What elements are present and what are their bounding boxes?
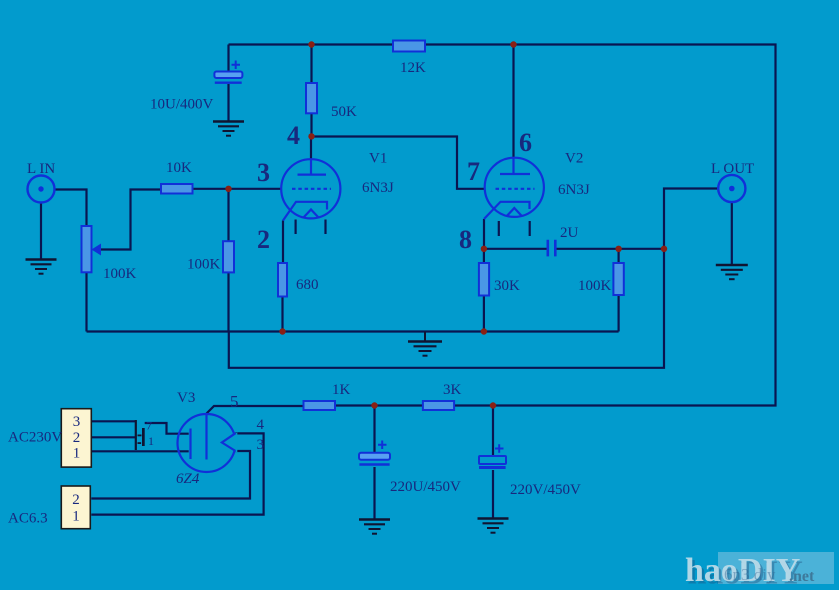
svg-text:3: 3 [257, 437, 265, 453]
capacitor 10U/400V [214, 61, 242, 83]
resistor 100K output [613, 263, 623, 295]
svg-text:12K: 12K [400, 60, 426, 76]
wire pot wiper to 10K [99, 190, 161, 250]
wire AC230V pin 3 to heater bar [91, 420, 136, 422]
svg-text:8: 8 [459, 225, 472, 254]
wire C1 top lead from rail [227, 45, 229, 72]
svg-text:30K: 30K [494, 278, 520, 294]
node rail-V2anode [510, 41, 516, 47]
svg-text:4: 4 [287, 121, 300, 150]
svg-text:1K: 1K [332, 382, 351, 398]
connector AC230V [61, 409, 91, 467]
resistor 3K [423, 401, 454, 410]
svg-text:5: 5 [230, 392, 239, 411]
wire 220V cap leads [492, 406, 494, 519]
wire grid junction down to 100K grid resistor [227, 189, 229, 241]
capacitor 2U coupling [548, 240, 556, 257]
capacitor 220V/450V [479, 444, 506, 467]
svg-text:3: 3 [257, 158, 270, 187]
svg-text:V1: V1 [369, 151, 387, 167]
svg-text:10K: 10K [166, 160, 192, 176]
wire pot bottom to ground bus [85, 273, 87, 332]
wire node 8 to 2U cap [484, 248, 547, 250]
wire AC230V pin 1 to V3 lower anode [91, 450, 188, 452]
svg-text:7: 7 [467, 157, 480, 186]
svg-text:7: 7 [146, 419, 152, 433]
node 3K-220V [490, 402, 496, 408]
wire L OUT jack ground stem [731, 202, 733, 264]
svg-text:100K: 100K [187, 257, 221, 273]
wire V2 cathode to node 8 [483, 219, 485, 249]
V3 heater bars pins 7/1 [135, 420, 145, 450]
tube V3 6Z4 [178, 414, 238, 472]
wire 100K output resistor leads [617, 249, 619, 332]
jack L IN [28, 176, 55, 203]
svg-text:220V/450V: 220V/450V [510, 482, 581, 498]
resistor 100K grid [223, 241, 234, 272]
wire 10K to V1 grid pin 3 [193, 188, 282, 190]
potentiometer 100K [82, 226, 102, 272]
wire L IN jack ground stem [40, 203, 42, 260]
svg-text:680: 680 [296, 277, 319, 293]
svg-text:AC230V: AC230V [8, 430, 62, 446]
wire 1K to 3K with filter cap taps [335, 404, 493, 406]
ground C1 10U [213, 122, 244, 136]
svg-text:V2: V2 [565, 151, 583, 167]
resistor 10K [161, 184, 193, 194]
tube V1 6N3J [281, 159, 340, 220]
wire V2 anode lead from rail [512, 45, 514, 159]
wire 220U cap leads [373, 406, 375, 520]
svg-text:10U/400V: 10U/400V [150, 97, 214, 113]
node grid junction [225, 186, 231, 192]
svg-text:2: 2 [72, 492, 80, 508]
ground 220U [359, 520, 390, 534]
node 680-bus [279, 328, 285, 334]
svg-text:V3: V3 [177, 390, 195, 406]
wire V2 heater stub right [529, 221, 531, 236]
wire node 4 to V2 grid pin 7 [312, 137, 486, 189]
resistor 1K [304, 401, 336, 410]
wire 50K top lead [310, 45, 312, 84]
capacitor 220U/450V [359, 441, 390, 465]
wire bus drop to lower return line up to L OUT jack [229, 189, 718, 368]
node 8 [481, 246, 487, 252]
resistor 30K [479, 263, 489, 296]
wire AC230V pin 2 to heater bar [91, 436, 135, 438]
ground L OUT [716, 265, 748, 279]
wire heater bars to V3 upper anode [145, 423, 189, 434]
svg-text:6n3 diy: 6n3 diy [724, 565, 776, 584]
node 1K-220U [371, 402, 377, 408]
ground bus center [408, 332, 442, 356]
wire C1 bottom lead to ground [227, 84, 229, 122]
svg-text:L OUT: L OUT [711, 161, 754, 177]
wire V3 pin 4 to AC6.3 pin 1 [91, 433, 263, 514]
svg-text:6: 6 [519, 128, 532, 157]
wire V1 heater stub right [324, 220, 326, 235]
svg-text:50K: 50K [331, 104, 357, 120]
node output [661, 246, 667, 252]
ground 220V [478, 519, 509, 533]
svg-text:L IN: L IN [27, 161, 55, 177]
wire 680 bottom to bus [281, 297, 283, 332]
svg-text:2U: 2U [560, 225, 579, 241]
svg-text:6N3J: 6N3J [558, 182, 590, 198]
wire V2 heater stub left [498, 221, 500, 236]
resistor 680 [278, 263, 287, 297]
svg-text:3K: 3K [443, 382, 462, 398]
svg-text:AC6.3: AC6.3 [8, 511, 48, 527]
svg-text:100K: 100K [103, 266, 137, 282]
svg-text:1: 1 [148, 434, 154, 448]
svg-text:6N3J: 6N3J [362, 180, 394, 196]
svg-text:1: 1 [73, 446, 81, 462]
wire top B+ rail with right side drop to bottom B+ line [229, 45, 776, 406]
ground L IN [26, 260, 57, 274]
wire ground bus [87, 330, 619, 332]
wire L IN jack to volume pot top [55, 190, 87, 227]
svg-text:220U/450V: 220U/450V [390, 479, 461, 495]
svg-text:2: 2 [257, 225, 270, 254]
wire 50K bottom lead to node 4 [310, 114, 312, 137]
watermark haoDIY.net [685, 552, 834, 590]
wire V1 cathode to 680 [282, 221, 284, 264]
svg-text:6Z4: 6Z4 [176, 471, 200, 487]
wire 2U cap to output node [556, 248, 664, 250]
wire 100K grid resistor bottom to bus [227, 272, 229, 331]
wire V3 pin 5 to 1K [207, 406, 304, 414]
svg-text:.net: .net [789, 568, 815, 585]
node 30K-bus [481, 328, 487, 334]
svg-text:2: 2 [73, 430, 81, 446]
svg-text:3: 3 [73, 414, 81, 430]
connector AC6.3 [61, 486, 90, 529]
wire 30K leads [483, 249, 485, 332]
node 100K top [615, 246, 621, 252]
svg-text:100K: 100K [578, 278, 612, 294]
tube V2 6N3J [484, 158, 544, 219]
wire V3 pin 3 to AC6.3 pin 2 [91, 451, 250, 499]
node rail-50K [308, 41, 314, 47]
wire V1 heater stub left [295, 220, 297, 235]
resistor 12K [393, 41, 425, 52]
resistor 50K [306, 83, 317, 113]
node 4 [308, 133, 314, 139]
jack L OUT [718, 175, 745, 202]
wire V1 anode lead [310, 137, 312, 161]
svg-text:4: 4 [257, 417, 265, 433]
svg-text:1: 1 [72, 509, 80, 525]
